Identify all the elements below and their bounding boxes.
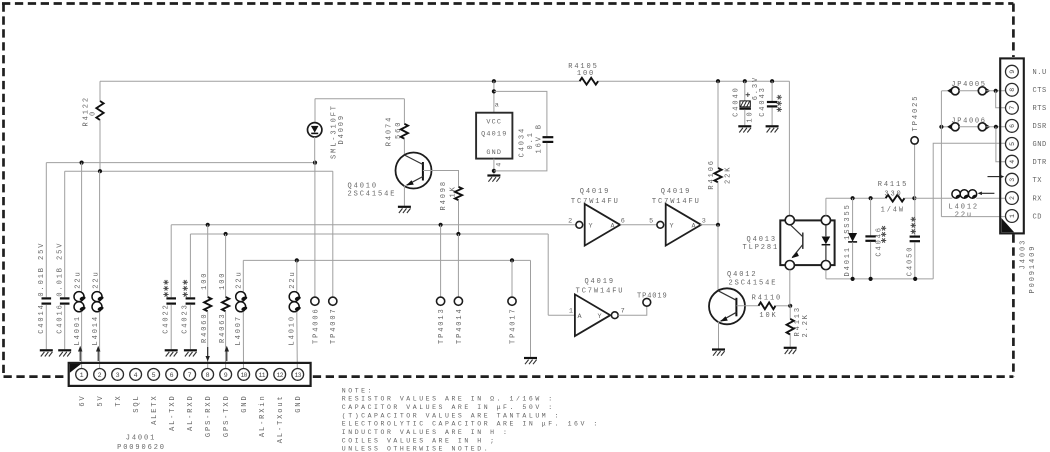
- node rail junction at VCC column: [492, 79, 496, 83]
- connector J4001 pin 7 circle: [184, 369, 196, 381]
- svg-text:TP4019: TP4019: [637, 292, 668, 300]
- wire C4016 lower lead: [64, 305, 66, 350]
- svg-text:3: 3: [1009, 178, 1016, 182]
- resistor R4110: [759, 302, 776, 309]
- jumper JP4006 left pin: [951, 123, 959, 131]
- svg-text:R4106: R4106: [708, 159, 716, 190]
- wire C4040 bottom lead: [744, 110, 746, 126]
- wire C4022 lower lead: [170, 305, 172, 350]
- resistor R4105: [580, 78, 599, 85]
- transistor Q4012 emitter arrow: [720, 316, 728, 321]
- svg-text:1: 1: [1009, 214, 1016, 218]
- transistor Q4012 base bar: [735, 298, 737, 317]
- svg-text:(T)CAPACITOR VALUES ARE TANTAL: (T)CAPACITOR VALUES ARE TANTALUM :: [342, 412, 561, 419]
- svg-text:7: 7: [1009, 106, 1016, 110]
- capacitor C4034 plates: [543, 136, 554, 138]
- wire RX net to L4012: [914, 197, 952, 199]
- svg-text:R4113: R4113: [794, 306, 802, 337]
- arrow into pin8: [207, 347, 209, 357]
- connector J4001 pin 3 circle: [112, 369, 124, 381]
- wire GND net y=260.4: [243, 259, 530, 261]
- svg-text:C4022: C4022: [162, 303, 170, 334]
- svg-text:D4009: D4009: [338, 114, 346, 145]
- node RX net at D4011: [851, 196, 855, 200]
- svg-text:10: 10: [241, 372, 248, 379]
- transistor Q4010 emitter arrow: [406, 180, 414, 185]
- svg-text:A: A: [611, 223, 616, 231]
- testpoint TP4017 circle: [508, 297, 516, 305]
- capacitor C4014 plates: [42, 297, 52, 299]
- arrow into pin2: [97, 351, 99, 362]
- wire R4113 top lead: [789, 306, 791, 319]
- svg-text:TLP281: TLP281: [743, 244, 780, 252]
- inductor L4001: [74, 292, 84, 302]
- svg-text:TP4007: TP4007: [330, 307, 338, 344]
- svg-text:2.2K: 2.2K: [802, 313, 810, 337]
- wire TP4025 lead: [914, 144, 916, 198]
- node iso GND at C4046: [869, 277, 873, 281]
- wire R4106 top lead: [717, 81, 719, 168]
- connector J4001 corner hatch: [70, 364, 81, 373]
- jumper JP4005 right pin: [978, 87, 986, 95]
- node iso GND at C4050: [913, 277, 917, 281]
- node GPS-RXD at TP4013: [439, 223, 443, 227]
- connector J4003 pin 4 circle: [1006, 155, 1019, 168]
- value C4043 ***: [777, 109, 782, 111]
- svg-text:12: 12: [277, 372, 284, 379]
- wire C4043 top lead: [771, 81, 773, 101]
- svg-text:TC7W14FU: TC7W14FU: [652, 198, 701, 206]
- capacitor C4016 plates: [60, 297, 70, 299]
- page border dashed bottom-left segment: [4, 375, 67, 378]
- node rail junction at C4043: [770, 79, 774, 83]
- svg-text:C4034: C4034: [519, 127, 527, 158]
- svg-text:RTS: RTS: [1033, 105, 1047, 113]
- wire C4023 lower lead: [189, 305, 191, 350]
- op-amp U3 inverter TC7W14FU: [575, 294, 610, 336]
- resistor R4060: [204, 297, 211, 311]
- wire L4010 lower lead: [296, 312, 299, 369]
- svg-text:TP4014: TP4014: [456, 307, 464, 344]
- testpoint TP4006 circle: [311, 297, 319, 305]
- connector J4003 corner hatch: [1001, 218, 1014, 232]
- wire GPS-TXD vertical drop: [547, 234, 549, 315]
- svg-text:AL-RXD: AL-RXD: [187, 394, 195, 431]
- diode D4011 1SS355: [852, 198, 854, 233]
- wire U1 output to node: [700, 224, 718, 226]
- connector J4003 pin 9 circle: [1006, 65, 1019, 78]
- ground Q4012 emitter: [712, 348, 725, 350]
- svg-text:Y: Y: [589, 223, 594, 231]
- svg-text:1K: 1K: [449, 185, 457, 197]
- node U1 output / R4106 / Q4012 collector: [716, 223, 720, 227]
- node GND net at TP4017: [510, 258, 514, 262]
- ground C4023: [184, 349, 197, 351]
- node GPS-TXD at R4098/TP4014: [456, 232, 460, 236]
- svg-text:GND: GND: [1033, 141, 1047, 149]
- resistor R4074: [401, 124, 408, 139]
- wire iso GND riser to pin5: [933, 143, 1005, 279]
- svg-text:CD: CD: [1033, 213, 1043, 221]
- svg-text:R4115: R4115: [878, 181, 909, 189]
- connector J4001 pin 1 circle: [76, 369, 88, 381]
- wire CD net riser: [940, 91, 942, 217]
- wire R4106 bottom lead: [717, 182, 719, 225]
- transistor Q4012 emitter diag: [721, 312, 737, 321]
- page border dashed right lower segment: [1012, 235, 1015, 377]
- svg-text:RX: RX: [1033, 195, 1043, 203]
- wire GND net vertical drop: [530, 260, 532, 357]
- svg-text:C4043: C4043: [759, 86, 767, 117]
- svg-text:22K: 22K: [725, 166, 733, 184]
- svg-text:RESISTOR VALUES ARE IN Ω. 1/16: RESISTOR VALUES ARE IN Ω. 1/16W :: [342, 396, 555, 403]
- svg-text:TX: TX: [1033, 177, 1043, 185]
- wire C4040 top lead: [744, 81, 746, 101]
- plus sign C4040: [746, 94, 750, 96]
- jumper JP4006 right pin: [978, 123, 986, 131]
- node rail junction at R4106: [716, 79, 720, 83]
- resistor R4122: [96, 101, 103, 120]
- svg-text:AL-RXin: AL-RXin: [259, 394, 267, 437]
- svg-text:5: 5: [1009, 142, 1016, 146]
- node JP4005 net: [994, 89, 998, 93]
- svg-text:C4023: C4023: [182, 303, 190, 334]
- svg-text:R4060: R4060: [201, 312, 209, 343]
- value C4023 ***: [183, 294, 188, 296]
- svg-text:a: a: [495, 101, 500, 109]
- transistor Q4010 emitter diag: [407, 177, 423, 186]
- svg-text:22u: 22u: [74, 270, 82, 288]
- node GPS-RXD at R4060: [206, 223, 210, 227]
- wire L4014 riser: [99, 171, 101, 291]
- ground C4022: [165, 349, 178, 351]
- connector J4001 pin 2 circle: [94, 369, 106, 381]
- svg-text:GPS-TXD: GPS-TXD: [223, 394, 231, 437]
- wire L4007 lower lead: [242, 312, 244, 369]
- optocoupler TLP281 top-right pin circle: [821, 216, 830, 225]
- svg-text:A: A: [578, 313, 583, 321]
- wire CD net to pin1: [941, 216, 1005, 218]
- svg-text:UNLESS OTHERWISE NOTED.: UNLESS OTHERWISE NOTED.: [342, 446, 490, 452]
- svg-text:GND: GND: [295, 394, 303, 412]
- wire JP4006 left lead: [941, 126, 951, 128]
- svg-text:D4011 1SS355: D4011 1SS355: [844, 203, 852, 276]
- wire L4007 riser: [242, 260, 244, 291]
- ground C4014: [40, 349, 53, 351]
- svg-text:1: 1: [80, 372, 84, 379]
- inductor L4010: [289, 292, 299, 302]
- svg-text:22u: 22u: [289, 270, 297, 288]
- svg-text:Q4019: Q4019: [580, 188, 611, 196]
- wire JP4006 middle: [959, 126, 978, 128]
- wire Q4012 emitter lead: [718, 322, 720, 349]
- svg-text:2SC4154E: 2SC4154E: [729, 279, 778, 287]
- svg-text:P0090620: P0090620: [117, 444, 166, 452]
- optocoupler TLP281 bottom-right pin circle: [821, 261, 830, 270]
- capacitor C4040 lower plate: [739, 108, 751, 110]
- wire TLP281 anode lead: [825, 270, 827, 279]
- transistor Q4012 collector diag: [718, 291, 736, 301]
- wire rail drop to TLP281: [788, 81, 790, 216]
- inductor L4012: [952, 190, 960, 198]
- svg-text:0.01B 25V: 0.01B 25V: [56, 242, 64, 297]
- svg-text:Q4019: Q4019: [584, 278, 615, 286]
- svg-text:5V: 5V: [97, 394, 105, 406]
- testpoint TP4019 circle: [643, 298, 651, 306]
- wire VCC box top lead: [493, 81, 495, 113]
- wire GPS-RXD net y=224.8: [171, 224, 576, 226]
- optocoupler TLP281 internal LED: [825, 225, 827, 237]
- wire R4113 bottom lead: [789, 335, 791, 347]
- arrow into pin1: [79, 351, 81, 362]
- svg-text:9: 9: [224, 372, 228, 379]
- svg-text:22u: 22u: [955, 212, 973, 220]
- ground mid GND net: [524, 357, 537, 359]
- svg-text:R4063: R4063: [219, 312, 227, 343]
- svg-text:0.1: 0.1: [527, 131, 535, 149]
- svg-text:AL-TXD: AL-TXD: [169, 394, 177, 431]
- wire JP4006 to pin6: [986, 126, 1005, 128]
- wire top power rail right segment: [598, 80, 789, 82]
- node 6V at LED: [313, 161, 317, 165]
- svg-text:R4074: R4074: [386, 116, 394, 147]
- wire Q4012 base lead: [736, 305, 758, 307]
- svg-text:8: 8: [206, 372, 210, 379]
- wire top power rail left segment: [100, 80, 580, 82]
- wire R4122 top lead: [99, 81, 101, 101]
- connector J4001 pin 4 circle: [130, 369, 142, 381]
- wire R4098 bottom lead: [458, 200, 460, 234]
- connector J4003 pin 5 circle: [1006, 138, 1019, 151]
- svg-text:22u: 22u: [92, 270, 100, 288]
- node VCC box ground junction: [492, 169, 496, 173]
- wire R4110 right lead: [776, 305, 791, 307]
- wire C4034 top branch: [494, 91, 547, 136]
- resistor R4115: [886, 195, 905, 202]
- led D4009 triangle: [311, 126, 319, 133]
- svg-text:2: 2: [568, 217, 573, 225]
- wire R4074 bottom lead: [403, 139, 405, 155]
- svg-text:1/4W: 1/4W: [881, 207, 905, 215]
- arrow RX direction: [982, 192, 995, 194]
- jumper JP4005 left pin: [951, 87, 959, 95]
- svg-text:INDUCTOR VALUES ARE IN H :: INDUCTOR VALUES ARE IN H :: [342, 429, 510, 436]
- wire L4012 to pin2: [976, 197, 1005, 199]
- transistor Q4010 collector diag: [404, 155, 423, 165]
- transistor Q4010 circle: [396, 153, 432, 189]
- svg-text:Y: Y: [670, 223, 675, 231]
- svg-text:560: 560: [395, 121, 403, 139]
- wire 5V node horizontal: [65, 170, 333, 172]
- capacitor C4040 hatched plate: [740, 101, 750, 107]
- svg-text:3: 3: [116, 372, 120, 379]
- value C4046 ***: [881, 240, 886, 242]
- wire R4115 right lead: [905, 197, 915, 199]
- ground C4040: [738, 125, 751, 127]
- svg-text:4: 4: [495, 162, 503, 167]
- svg-text:TX: TX: [115, 394, 123, 406]
- svg-text:100: 100: [219, 272, 227, 290]
- connector J4001 pin 8 circle: [202, 369, 214, 381]
- svg-text:7: 7: [188, 372, 192, 379]
- page border dashed left: [2, 4, 5, 377]
- wire U2 output to U1 input: [620, 224, 657, 226]
- svg-text:9: 9: [1009, 70, 1016, 74]
- node JP4006 left net: [939, 125, 943, 129]
- transistor Q4012 circle: [709, 288, 745, 324]
- svg-text:DTR: DTR: [1033, 159, 1048, 167]
- svg-text:L4012: L4012: [949, 203, 980, 211]
- svg-text:TP4025: TP4025: [912, 95, 920, 132]
- arrow out of pin9: [226, 351, 228, 362]
- svg-text:TC7W14FU: TC7W14FU: [576, 287, 625, 295]
- wire LED D4009 bottom lead: [314, 137, 316, 163]
- wire R4074 top lead: [403, 99, 405, 124]
- svg-text:5: 5: [152, 372, 156, 379]
- svg-text:Q4019: Q4019: [661, 188, 692, 196]
- svg-text:A: A: [692, 223, 697, 231]
- wire C4014 riser: [45, 163, 47, 298]
- node RX net at C4050/TP4025: [912, 196, 916, 200]
- wire GPS-TXD net y=234: [190, 233, 548, 235]
- svg-text:0.01B 25V: 0.01B 25V: [38, 242, 46, 297]
- wire C4014 lower lead: [45, 305, 47, 350]
- svg-text:AL-TXout: AL-TXout: [277, 394, 285, 443]
- wire isolated GND rail: [826, 278, 933, 280]
- node 5V at L4014/R4122: [98, 169, 102, 173]
- svg-text:VCC: VCC: [486, 119, 502, 127]
- svg-text:10: 10: [746, 110, 754, 122]
- svg-text:L4007: L4007: [235, 315, 243, 346]
- wire 6V node horizontal: [46, 162, 315, 164]
- capacitor C4043 plates: [767, 101, 777, 103]
- node 6V at L4001: [80, 161, 84, 165]
- wire JP4005 to pin8: [986, 90, 1005, 92]
- svg-text:TP4017: TP4017: [509, 307, 517, 344]
- wire Q4012 collector riser: [717, 225, 719, 291]
- svg-text:TP4006: TP4006: [312, 307, 320, 344]
- svg-text:10K: 10K: [759, 312, 777, 320]
- svg-text:TP4013: TP4013: [438, 307, 446, 344]
- led D4009 cathode bar: [311, 132, 318, 134]
- wire CTS to RTS link: [996, 91, 1006, 108]
- svg-text:8: 8: [1009, 88, 1016, 92]
- inductor L4007: [236, 292, 246, 302]
- wire JP4005 left lead: [941, 90, 951, 92]
- wire TP4017 riser: [511, 260, 513, 297]
- wire LED D4009 top lead: [314, 99, 316, 123]
- wire R4063 riser: [225, 234, 227, 297]
- ground C4016: [58, 349, 71, 351]
- svg-text:4: 4: [1009, 160, 1016, 164]
- svg-text:ELECTOROLYTIC CAPACITOR ARE IN: ELECTOROLYTIC CAPACITOR ARE IN μF. 16V :: [342, 421, 600, 428]
- wire L4001 riser: [81, 163, 83, 292]
- svg-text:SQL: SQL: [133, 394, 141, 412]
- capacitor C4022 plates: [166, 297, 176, 299]
- wire TP4006 riser: [314, 163, 316, 298]
- capacitor C4023 plates: [186, 297, 196, 299]
- svg-text:330: 330: [884, 190, 902, 198]
- svg-text:NOTE:: NOTE:: [342, 387, 374, 394]
- wire LED top from corner: [315, 98, 404, 100]
- node GND net at L4010: [295, 258, 299, 262]
- wire TP4014 riser: [457, 234, 459, 297]
- testpoint TP4007 circle: [329, 297, 337, 305]
- wire C4034 bottom branch: [494, 143, 547, 171]
- op-amp U2 inverter TC7W14FU: [576, 221, 583, 228]
- svg-text:C4014: C4014: [38, 303, 46, 334]
- resistor R4113: [787, 319, 794, 335]
- svg-text:CAPACITOR VALUES ARE IN μF. 50: CAPACITOR VALUES ARE IN μF. 50V :: [342, 404, 555, 411]
- svg-text:GND: GND: [486, 149, 502, 157]
- connector J4003 pin 8 circle: [1006, 83, 1019, 96]
- connector J4001 pin 12 circle: [274, 369, 286, 381]
- node RX net at C4046: [869, 196, 873, 200]
- svg-text:C4050: C4050: [906, 246, 914, 277]
- connector J4001 pin 13 circle: [292, 369, 304, 381]
- arrow TX direction: [988, 176, 1001, 178]
- value C4022 ***: [163, 294, 168, 296]
- testpoint TP4025 circle: [911, 137, 918, 144]
- wire R4063 lower lead: [225, 311, 227, 368]
- ground VCC box: [487, 174, 500, 176]
- page border dashed right upper segment: [1012, 4, 1015, 58]
- wire DSR to DTR link: [996, 127, 1006, 162]
- svg-text:5: 5: [649, 217, 654, 225]
- svg-text:13: 13: [295, 372, 302, 379]
- svg-text:4: 4: [134, 372, 138, 379]
- svg-text:GND: GND: [241, 394, 249, 412]
- svg-text:N.U: N.U: [1033, 69, 1047, 77]
- node JP4006 net: [994, 125, 998, 129]
- wire TLP281 cathode to RX net: [825, 198, 827, 215]
- wire U3 output to TP4019: [618, 306, 647, 315]
- wire TP4013 riser: [440, 225, 442, 297]
- svg-text:CTS: CTS: [1033, 87, 1047, 95]
- svg-text:L4001: L4001: [74, 315, 82, 346]
- svg-text:C4016: C4016: [56, 303, 64, 334]
- resistor R4098: [455, 187, 462, 200]
- connector J4003 pin 6 circle: [1006, 120, 1019, 133]
- svg-text:6: 6: [1009, 124, 1016, 128]
- connector J4001 pin 6 circle: [166, 369, 178, 381]
- resistor R4063: [222, 297, 229, 311]
- optocoupler TLP281 top-left pin circle: [785, 216, 794, 225]
- svg-text:7: 7: [621, 308, 626, 316]
- svg-text:C4046: C4046: [875, 226, 883, 257]
- optocoupler Q4013 TLP281 box: [780, 220, 834, 265]
- optocoupler TLP281 phototransistor: [791, 225, 803, 237]
- svg-text:16V B: 16V B: [536, 123, 544, 154]
- svg-text:ALETX: ALETX: [151, 394, 159, 425]
- svg-text:Y: Y: [598, 313, 603, 321]
- page border dashed bottom-right segment: [313, 375, 1014, 378]
- svg-text:6: 6: [170, 372, 174, 379]
- connector J4001 pin 9 circle: [220, 369, 232, 381]
- svg-text:2: 2: [98, 372, 102, 379]
- connector J4003 pin 3 circle: [1006, 173, 1019, 186]
- ground R4113: [784, 347, 797, 349]
- svg-text:J4003: J4003: [1020, 239, 1028, 270]
- svg-text:R4098: R4098: [440, 180, 448, 211]
- svg-text:22u: 22u: [235, 270, 243, 288]
- wire L4001 lower lead: [81, 312, 83, 369]
- node R4110/R4113/TLP emitter: [788, 304, 792, 308]
- svg-text:TC7W14FU: TC7W14FU: [571, 198, 620, 206]
- wire C4043 bottom lead: [771, 107, 773, 125]
- optocoupler TLP281 bottom-left pin circle: [785, 261, 794, 270]
- ground C4043: [766, 125, 779, 127]
